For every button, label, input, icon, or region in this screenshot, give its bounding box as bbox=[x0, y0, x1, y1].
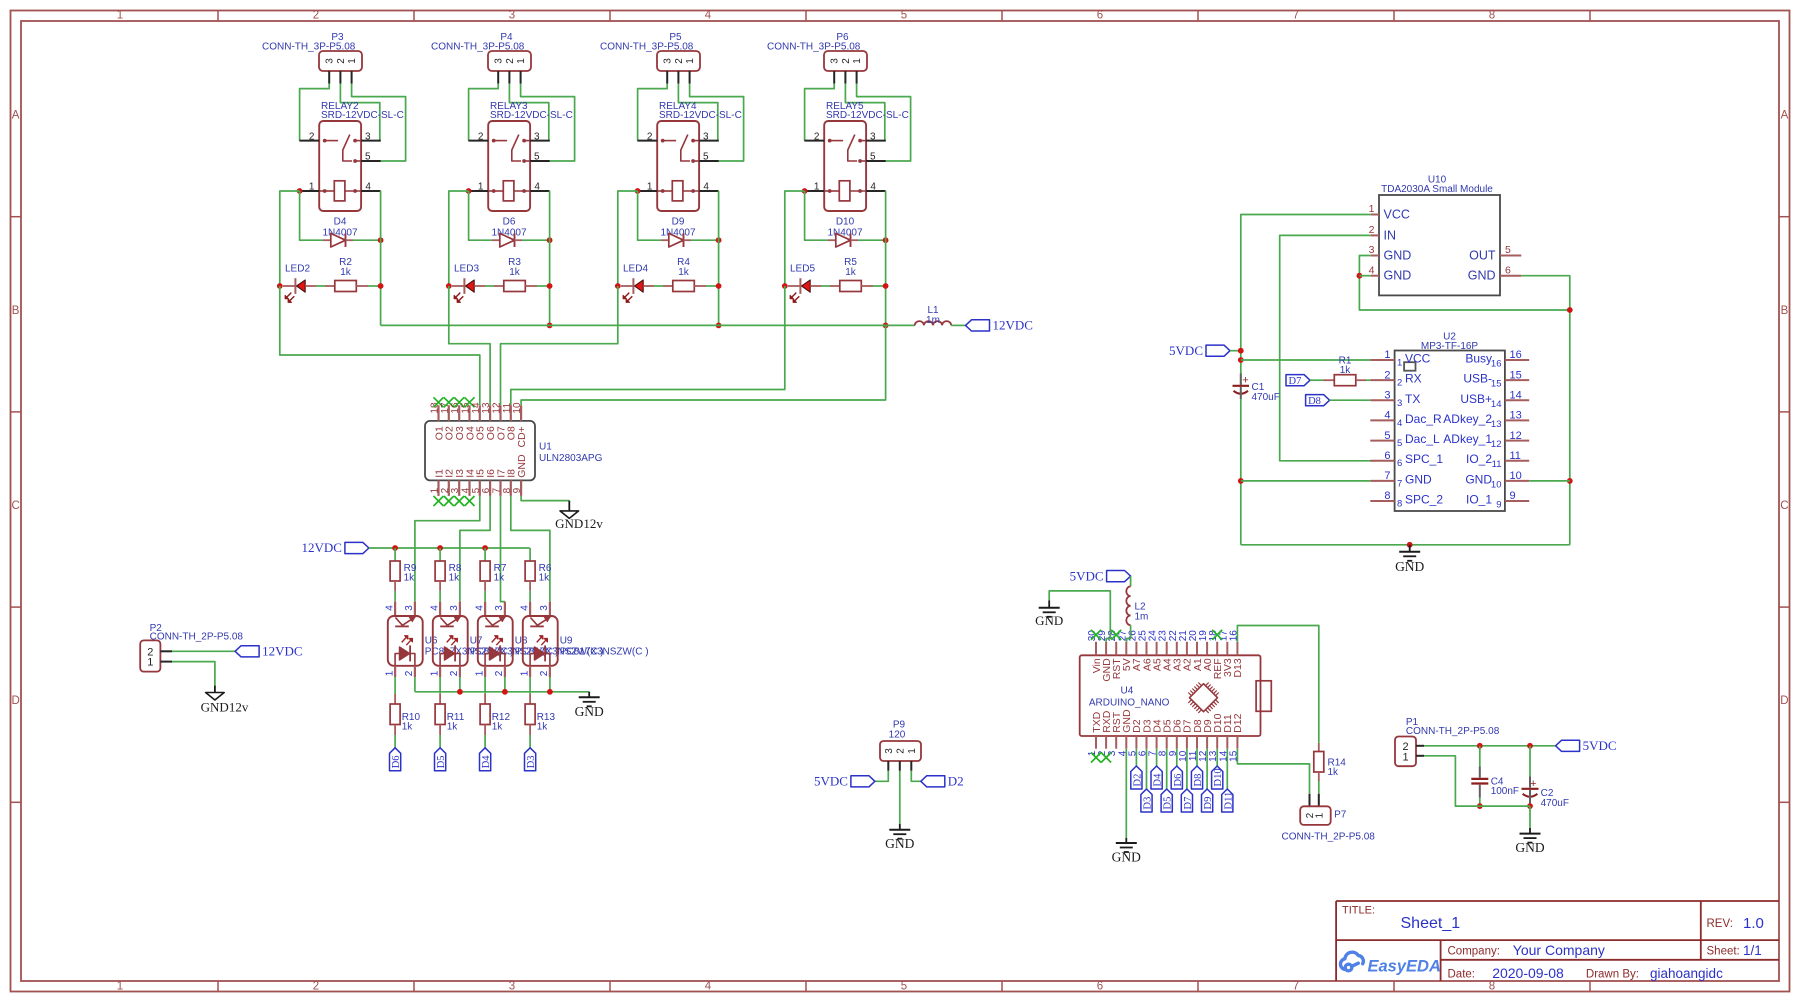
svg-text:470uF: 470uF bbox=[1252, 392, 1280, 403]
svg-text:1: 1 bbox=[478, 182, 484, 193]
svg-text:1m: 1m bbox=[926, 315, 940, 326]
svg-text:GND: GND bbox=[885, 836, 914, 851]
svg-text:4: 4 bbox=[1397, 418, 1402, 429]
svg-text:9: 9 bbox=[1496, 500, 1501, 511]
svg-text:11: 11 bbox=[1510, 450, 1521, 462]
svg-text:GND12v: GND12v bbox=[555, 516, 603, 531]
svg-text:2: 2 bbox=[313, 9, 319, 21]
svg-text:RX: RX bbox=[1405, 372, 1422, 386]
svg-text:3: 3 bbox=[1397, 398, 1402, 409]
svg-text:IO_1: IO_1 bbox=[1466, 493, 1492, 507]
svg-text:D9: D9 bbox=[672, 216, 685, 227]
svg-text:IO_2: IO_2 bbox=[1466, 452, 1492, 466]
svg-text:GND: GND bbox=[1035, 613, 1063, 628]
svg-text:Date:: Date: bbox=[1448, 969, 1476, 981]
svg-text:4: 4 bbox=[519, 605, 530, 611]
svg-text:8: 8 bbox=[1384, 490, 1390, 502]
svg-text:1k: 1k bbox=[845, 267, 857, 278]
svg-text:1: 1 bbox=[647, 182, 653, 193]
svg-text:Busy: Busy bbox=[1465, 352, 1492, 366]
svg-text:3: 3 bbox=[325, 58, 336, 64]
svg-text:4: 4 bbox=[705, 9, 712, 21]
svg-text:GND: GND bbox=[1112, 850, 1141, 865]
svg-text:6: 6 bbox=[1505, 264, 1511, 276]
svg-text:3: 3 bbox=[703, 131, 709, 142]
svg-text:2: 2 bbox=[478, 131, 484, 142]
svg-text:5: 5 bbox=[1505, 244, 1511, 256]
svg-text:120: 120 bbox=[889, 729, 906, 740]
svg-text:D9: D9 bbox=[1203, 797, 1214, 810]
svg-text:4: 4 bbox=[870, 182, 876, 193]
svg-text:GND: GND bbox=[516, 454, 528, 478]
svg-text:VCC: VCC bbox=[1405, 352, 1431, 366]
svg-text:5VDC: 5VDC bbox=[1583, 738, 1617, 753]
svg-text:C: C bbox=[11, 500, 19, 512]
svg-text:3: 3 bbox=[494, 605, 505, 611]
svg-text:GND: GND bbox=[1465, 472, 1492, 486]
svg-text:1: 1 bbox=[384, 670, 395, 676]
svg-text:SPC_2: SPC_2 bbox=[1405, 493, 1443, 507]
svg-text:3: 3 bbox=[365, 131, 371, 142]
svg-text:13: 13 bbox=[481, 402, 492, 414]
svg-text:SRD-12VDC-SL-C: SRD-12VDC-SL-C bbox=[490, 110, 573, 121]
svg-text:12VDC: 12VDC bbox=[301, 540, 341, 555]
svg-text:1: 1 bbox=[117, 981, 123, 993]
svg-text:6: 6 bbox=[481, 487, 492, 493]
svg-text:12VDC: 12VDC bbox=[993, 318, 1033, 333]
svg-text:2: 2 bbox=[674, 58, 685, 64]
svg-text:ADkey_2: ADkey_2 bbox=[1443, 412, 1492, 426]
svg-text:U1: U1 bbox=[539, 442, 552, 453]
svg-text:1N4007: 1N4007 bbox=[660, 227, 695, 238]
svg-text:10: 10 bbox=[1510, 470, 1522, 482]
svg-text:7: 7 bbox=[1384, 470, 1390, 482]
svg-text:GND: GND bbox=[1395, 559, 1424, 574]
svg-text:5: 5 bbox=[1397, 438, 1402, 449]
svg-text:D: D bbox=[1780, 695, 1788, 707]
svg-text:1: 1 bbox=[852, 58, 863, 64]
svg-text:4: 4 bbox=[384, 605, 395, 611]
svg-text:B: B bbox=[12, 305, 20, 317]
svg-text:A: A bbox=[1781, 110, 1789, 122]
svg-text:Sheet:: Sheet: bbox=[1707, 946, 1740, 958]
svg-text:CD+: CD+ bbox=[516, 426, 528, 447]
svg-text:2: 2 bbox=[841, 58, 852, 64]
svg-text:3: 3 bbox=[870, 131, 876, 142]
svg-text:U4: U4 bbox=[1121, 686, 1134, 697]
svg-text:D2: D2 bbox=[1132, 774, 1143, 787]
svg-text:3: 3 bbox=[534, 131, 540, 142]
svg-text:1: 1 bbox=[519, 670, 530, 676]
svg-text:1: 1 bbox=[474, 670, 485, 676]
svg-text:16: 16 bbox=[1510, 349, 1522, 361]
svg-text:D: D bbox=[11, 695, 19, 707]
svg-text:SRD-12VDC-SL-C: SRD-12VDC-SL-C bbox=[826, 110, 909, 121]
svg-text:D8: D8 bbox=[1308, 396, 1321, 407]
svg-text:TX: TX bbox=[1405, 392, 1420, 406]
svg-text:12: 12 bbox=[1491, 439, 1502, 450]
svg-text:1: 1 bbox=[117, 9, 123, 21]
svg-text:1: 1 bbox=[907, 748, 918, 754]
svg-text:Drawn By:: Drawn By: bbox=[1586, 969, 1639, 981]
svg-text:1N4007: 1N4007 bbox=[322, 227, 357, 238]
svg-text:ARDUINO_NANO: ARDUINO_NANO bbox=[1089, 698, 1170, 709]
svg-text:13: 13 bbox=[1491, 419, 1502, 430]
svg-text:2: 2 bbox=[404, 670, 415, 676]
svg-text:Sheet_1: Sheet_1 bbox=[1401, 915, 1461, 932]
svg-text:1k: 1k bbox=[509, 267, 521, 278]
svg-text:1: 1 bbox=[685, 58, 696, 64]
svg-text:CONN-TH_2P-P5.08: CONN-TH_2P-P5.08 bbox=[150, 632, 244, 643]
svg-text:2: 2 bbox=[309, 131, 315, 142]
svg-text:TITLE:: TITLE: bbox=[1342, 905, 1375, 917]
svg-text:2: 2 bbox=[895, 748, 906, 754]
svg-text:1: 1 bbox=[309, 182, 315, 193]
svg-text:IN: IN bbox=[1384, 228, 1397, 242]
svg-text:GND: GND bbox=[1384, 269, 1412, 283]
svg-text:1k: 1k bbox=[1328, 767, 1340, 778]
svg-text:Dac_R: Dac_R bbox=[1405, 412, 1442, 426]
svg-text:3: 3 bbox=[494, 58, 505, 64]
svg-text:7: 7 bbox=[1397, 478, 1402, 489]
svg-text:15: 15 bbox=[1510, 369, 1522, 381]
svg-text:GND12v: GND12v bbox=[201, 700, 249, 715]
svg-text:GND: GND bbox=[1468, 269, 1496, 283]
svg-text:2: 2 bbox=[539, 670, 550, 676]
svg-text:P7: P7 bbox=[1334, 810, 1347, 821]
svg-text:D7: D7 bbox=[1183, 797, 1194, 810]
svg-text:1k: 1k bbox=[447, 721, 459, 732]
svg-text:1N4007: 1N4007 bbox=[827, 227, 862, 238]
svg-text:C: C bbox=[1780, 500, 1788, 512]
svg-text:1k: 1k bbox=[402, 721, 414, 732]
svg-text:5: 5 bbox=[703, 152, 709, 163]
svg-text:SRD-12VDC-SL-C: SRD-12VDC-SL-C bbox=[321, 110, 404, 121]
svg-text:D4: D4 bbox=[481, 755, 492, 769]
svg-text:7: 7 bbox=[1293, 981, 1299, 993]
svg-text:5: 5 bbox=[901, 9, 907, 21]
svg-text:14: 14 bbox=[1510, 390, 1522, 402]
svg-text:giahoangidc: giahoangidc bbox=[1650, 966, 1723, 981]
svg-text:D7: D7 bbox=[1289, 376, 1302, 387]
svg-text:12VDC: 12VDC bbox=[262, 644, 302, 659]
svg-text:12: 12 bbox=[1510, 430, 1522, 442]
svg-text:D11: D11 bbox=[1223, 792, 1234, 810]
svg-text:OUT: OUT bbox=[1469, 249, 1496, 263]
svg-text:U6: U6 bbox=[425, 635, 438, 646]
svg-text:6: 6 bbox=[1384, 450, 1390, 462]
svg-text:4: 4 bbox=[703, 182, 709, 193]
svg-text:1k: 1k bbox=[340, 267, 352, 278]
svg-text:USB+: USB+ bbox=[1460, 392, 1492, 406]
svg-text:B: B bbox=[1781, 305, 1789, 317]
svg-text:D3: D3 bbox=[1143, 797, 1154, 810]
svg-text:5: 5 bbox=[534, 152, 540, 163]
svg-text:16: 16 bbox=[1491, 359, 1502, 370]
svg-text:5: 5 bbox=[870, 152, 876, 163]
svg-text:D5: D5 bbox=[436, 755, 447, 768]
svg-text:470uF: 470uF bbox=[1541, 798, 1569, 809]
svg-text:VCC: VCC bbox=[1384, 208, 1410, 222]
svg-text:15: 15 bbox=[1491, 379, 1502, 390]
svg-text:10: 10 bbox=[1491, 479, 1502, 490]
svg-text:PC817X3NSZW(C ): PC817X3NSZW(C ) bbox=[560, 647, 649, 658]
svg-text:USB-: USB- bbox=[1463, 372, 1492, 386]
svg-text:D10: D10 bbox=[1213, 768, 1224, 786]
svg-text:9: 9 bbox=[1510, 490, 1516, 502]
svg-text:2: 2 bbox=[440, 487, 451, 493]
svg-text:D8: D8 bbox=[1193, 774, 1204, 787]
svg-text:ADkey_1: ADkey_1 bbox=[1443, 432, 1492, 446]
svg-text:1.0: 1.0 bbox=[1743, 915, 1764, 932]
svg-text:3: 3 bbox=[509, 9, 515, 21]
svg-text:4: 4 bbox=[534, 182, 540, 193]
svg-text:D4: D4 bbox=[334, 216, 347, 227]
svg-text:EasyEDA: EasyEDA bbox=[1368, 957, 1441, 975]
svg-text:D12: D12 bbox=[1232, 713, 1244, 732]
svg-text:D4: D4 bbox=[1153, 773, 1164, 787]
svg-text:4: 4 bbox=[1384, 410, 1390, 422]
svg-text:4: 4 bbox=[429, 605, 440, 611]
svg-text:11: 11 bbox=[1492, 459, 1502, 470]
svg-text:2: 2 bbox=[647, 131, 653, 142]
svg-text:13: 13 bbox=[1510, 410, 1522, 422]
svg-text:3: 3 bbox=[404, 605, 415, 611]
svg-text:100nF: 100nF bbox=[1491, 786, 1519, 797]
svg-text:D10: D10 bbox=[836, 216, 855, 227]
svg-text:ULN2803APG: ULN2803APG bbox=[539, 453, 603, 464]
svg-text:Company:: Company: bbox=[1448, 946, 1500, 958]
svg-text:TDA2030A Small Module: TDA2030A Small Module bbox=[1381, 184, 1493, 195]
svg-text:2: 2 bbox=[449, 670, 460, 676]
svg-text:1k: 1k bbox=[678, 267, 690, 278]
svg-text:1k: 1k bbox=[539, 573, 551, 584]
svg-text:4: 4 bbox=[1369, 264, 1375, 276]
svg-text:1N4007: 1N4007 bbox=[491, 227, 526, 238]
svg-text:4: 4 bbox=[705, 981, 712, 993]
svg-text:2: 2 bbox=[313, 981, 319, 993]
svg-text:1: 1 bbox=[1314, 812, 1325, 818]
svg-text:U7: U7 bbox=[470, 635, 483, 646]
svg-text:2: 2 bbox=[1369, 224, 1375, 236]
svg-text:1: 1 bbox=[516, 58, 527, 64]
svg-text:3: 3 bbox=[1369, 244, 1375, 256]
svg-text:3: 3 bbox=[1384, 390, 1390, 402]
svg-text:10: 10 bbox=[512, 402, 523, 414]
svg-text:1: 1 bbox=[147, 657, 153, 669]
svg-text:1: 1 bbox=[1369, 203, 1375, 215]
svg-text:5VDC: 5VDC bbox=[1169, 343, 1203, 358]
svg-text:1: 1 bbox=[1402, 751, 1408, 763]
svg-text:GND: GND bbox=[1384, 249, 1412, 263]
svg-text:U8: U8 bbox=[515, 635, 528, 646]
svg-text:6: 6 bbox=[1397, 458, 1402, 469]
svg-text:D6: D6 bbox=[1173, 774, 1184, 787]
svg-text:1k: 1k bbox=[449, 573, 461, 584]
svg-text:5VDC: 5VDC bbox=[814, 774, 848, 789]
svg-text:LED4: LED4 bbox=[623, 264, 648, 275]
svg-text:8: 8 bbox=[1489, 9, 1495, 21]
svg-text:D6: D6 bbox=[503, 216, 516, 227]
svg-text:1k: 1k bbox=[492, 721, 504, 732]
svg-text:1: 1 bbox=[1384, 349, 1390, 361]
svg-text:REV:: REV: bbox=[1707, 918, 1733, 930]
svg-text:2: 2 bbox=[505, 58, 516, 64]
svg-text:6: 6 bbox=[1097, 9, 1103, 21]
svg-text:4: 4 bbox=[365, 182, 371, 193]
svg-text:7: 7 bbox=[1293, 9, 1299, 21]
svg-text:2: 2 bbox=[1384, 369, 1390, 381]
svg-text:1: 1 bbox=[347, 58, 358, 64]
svg-text:1k: 1k bbox=[494, 573, 506, 584]
svg-text:LED3: LED3 bbox=[454, 264, 479, 275]
svg-text:5: 5 bbox=[1384, 430, 1390, 442]
svg-text:3: 3 bbox=[830, 58, 841, 64]
svg-text:CONN-TH_2P-P5.08: CONN-TH_2P-P5.08 bbox=[1282, 832, 1376, 843]
svg-text:1m: 1m bbox=[1135, 612, 1149, 623]
svg-text:1: 1 bbox=[1397, 358, 1402, 369]
svg-text:3: 3 bbox=[539, 605, 550, 611]
svg-text:3: 3 bbox=[449, 605, 460, 611]
svg-text:5: 5 bbox=[901, 981, 907, 993]
svg-text:1: 1 bbox=[814, 182, 820, 193]
svg-text:5: 5 bbox=[365, 152, 371, 163]
svg-text:2: 2 bbox=[814, 131, 820, 142]
svg-text:GND: GND bbox=[575, 704, 604, 719]
svg-text:5VDC: 5VDC bbox=[1070, 568, 1104, 583]
svg-text:LED2: LED2 bbox=[285, 264, 310, 275]
svg-text:14: 14 bbox=[1491, 399, 1502, 410]
svg-text:6: 6 bbox=[1097, 981, 1103, 993]
svg-text:A: A bbox=[12, 110, 20, 122]
svg-text:9: 9 bbox=[512, 487, 523, 493]
svg-text:4: 4 bbox=[474, 605, 485, 611]
svg-text:GND: GND bbox=[1405, 472, 1432, 486]
svg-text:Your Company: Your Company bbox=[1513, 942, 1605, 958]
svg-text:2: 2 bbox=[336, 58, 347, 64]
svg-text:D6: D6 bbox=[391, 755, 402, 768]
svg-text:8: 8 bbox=[1489, 981, 1495, 993]
svg-text:SRD-12VDC-SL-C: SRD-12VDC-SL-C bbox=[659, 110, 742, 121]
svg-text:2020-09-08: 2020-09-08 bbox=[1492, 965, 1564, 981]
svg-text:8: 8 bbox=[1397, 499, 1402, 510]
svg-text:2: 2 bbox=[494, 670, 505, 676]
svg-text:1k: 1k bbox=[537, 721, 549, 732]
svg-text:D3: D3 bbox=[526, 755, 537, 768]
svg-text:SPC_1: SPC_1 bbox=[1405, 452, 1443, 466]
svg-text:LED5: LED5 bbox=[790, 264, 815, 275]
svg-text:D13: D13 bbox=[1232, 658, 1244, 677]
svg-text:1/1: 1/1 bbox=[1743, 943, 1762, 958]
svg-text:3: 3 bbox=[509, 981, 515, 993]
svg-text:GND: GND bbox=[1515, 840, 1544, 855]
svg-text:3: 3 bbox=[884, 748, 895, 754]
svg-text:U9: U9 bbox=[560, 635, 573, 646]
svg-text:1k: 1k bbox=[404, 573, 416, 584]
svg-text:2: 2 bbox=[1397, 378, 1402, 389]
svg-text:Dac_L: Dac_L bbox=[1405, 432, 1440, 446]
svg-text:D5: D5 bbox=[1163, 797, 1174, 810]
svg-text:D2: D2 bbox=[948, 774, 964, 789]
svg-text:1: 1 bbox=[429, 670, 440, 676]
svg-text:3: 3 bbox=[663, 58, 674, 64]
svg-text:MP3-TF-16P: MP3-TF-16P bbox=[1421, 341, 1479, 352]
svg-text:CONN-TH_2P-P5.08: CONN-TH_2P-P5.08 bbox=[1406, 726, 1500, 737]
